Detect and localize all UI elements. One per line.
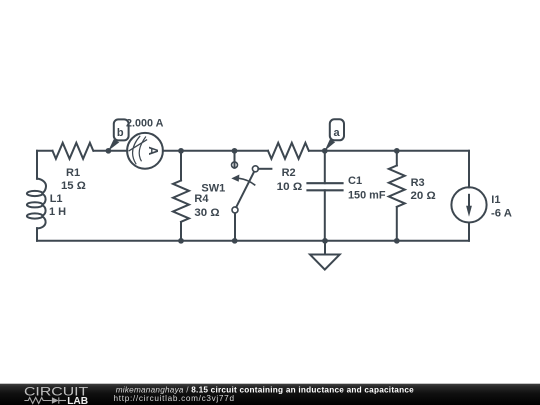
logo diode triangle bbox=[52, 397, 59, 404]
svg-text:R3: R3 bbox=[411, 177, 425, 189]
svg-text:-6 A: -6 A bbox=[491, 208, 512, 220]
svg-text:b: b bbox=[117, 127, 124, 139]
wire right branch upper bbox=[468, 151, 470, 188]
switch SW1 bottom stub bbox=[234, 213, 236, 241]
resistor R4 bbox=[173, 181, 189, 222]
logo schematic glyph: wire, resistor, diode bbox=[24, 397, 66, 403]
svg-text:150 mF: 150 mF bbox=[348, 189, 386, 201]
switch SW1 actuation arrowhead bbox=[231, 175, 239, 182]
inductor L1 loop 2 bbox=[27, 202, 43, 207]
node label a tail bbox=[325, 139, 336, 151]
ground stub bbox=[324, 241, 326, 255]
svg-text:R2: R2 bbox=[282, 167, 296, 179]
capacitor C1 top plate bbox=[308, 182, 343, 184]
svg-text:10 Ω: 10 Ω bbox=[277, 181, 303, 193]
ammeter needle bbox=[129, 140, 148, 152]
svg-text:1 H: 1 H bbox=[49, 206, 66, 218]
svg-text:LAB: LAB bbox=[67, 396, 88, 405]
wire R4 top lead bbox=[180, 151, 182, 181]
ammeter scale arc 1 bbox=[133, 136, 141, 165]
svg-text:30 Ω: 30 Ω bbox=[194, 207, 219, 219]
wire bottom bbox=[37, 240, 469, 242]
wire R1 to ammeter bbox=[94, 150, 127, 152]
current source I1 arrowhead bbox=[466, 206, 472, 217]
junction dot SW1 top bbox=[232, 148, 238, 154]
wire R4 bottom lead bbox=[180, 222, 182, 240]
junction dot R4 bottom bbox=[178, 238, 184, 244]
svg-text:C1: C1 bbox=[348, 175, 362, 187]
wire R2 to top-right corner bbox=[309, 150, 469, 152]
capacitor C1 top lead bbox=[324, 151, 326, 183]
switch SW1 arm bbox=[236, 172, 254, 208]
ammeter scale arc 2 bbox=[139, 137, 146, 162]
junction dot SW1 bottom bbox=[232, 238, 238, 244]
current source I1 circle bbox=[451, 187, 486, 222]
capacitor C1 bottom plate bbox=[308, 189, 343, 191]
resistor R1 bbox=[53, 143, 94, 159]
inductor L1 exit curve bbox=[37, 216, 46, 228]
wire left branch upper bbox=[36, 151, 38, 179]
node label b box bbox=[114, 119, 129, 140]
resistor R3 bbox=[389, 166, 405, 207]
svg-text:I1: I1 bbox=[491, 194, 500, 206]
svg-text:15 Ω: 15 Ω bbox=[61, 180, 86, 192]
current source I1 arrow shaft bbox=[468, 194, 470, 207]
svg-text:http://circuitlab.com/c3vj77d: http://circuitlab.com/c3vj77d bbox=[114, 394, 235, 403]
inductor L1 entry curve bbox=[37, 179, 46, 194]
footer bar bbox=[0, 384, 540, 405]
inductor L1 loop 1 bbox=[27, 191, 43, 196]
svg-text:a: a bbox=[334, 127, 341, 139]
capacitor C1 bottom lead bbox=[324, 190, 326, 241]
inductor L1 arc 1-2 bbox=[42, 194, 45, 205]
wire R3 top lead bbox=[396, 151, 398, 166]
inductor L1 arc 2-3 bbox=[42, 205, 45, 216]
wire top-left horizontal lead bbox=[37, 150, 53, 152]
svg-text:20 Ω: 20 Ω bbox=[411, 190, 436, 202]
svg-text:R4: R4 bbox=[194, 193, 209, 205]
ground symbol triangle bbox=[310, 255, 340, 270]
switch SW1 throw stub bbox=[258, 168, 271, 170]
switch SW1 top terminal circle bbox=[232, 162, 238, 168]
junction dot R3 top bbox=[394, 148, 400, 154]
svg-text:A: A bbox=[146, 146, 160, 155]
inductor L1 loop 3 bbox=[27, 213, 43, 218]
node label a box bbox=[330, 119, 344, 140]
ammeter AM1 circle bbox=[127, 133, 163, 169]
junction dot ground bbox=[322, 238, 328, 244]
wire right branch lower bbox=[468, 223, 470, 241]
junction dot node a bbox=[322, 148, 328, 154]
switch SW1 pivot terminal circle bbox=[232, 207, 238, 213]
switch SW1 actuation arrow arc bbox=[239, 178, 255, 185]
wire R3 bottom lead bbox=[396, 207, 398, 240]
svg-text:mikemananghaya / 8.15 circuit: mikemananghaya / 8.15 circuit containing… bbox=[116, 385, 414, 394]
junction dot node b bbox=[106, 148, 112, 154]
svg-text:R1: R1 bbox=[66, 167, 80, 179]
node label b tail bbox=[108, 139, 119, 150]
junction dot R3 bottom bbox=[394, 238, 400, 244]
switch SW1 top stub bbox=[234, 151, 236, 168]
svg-text:L1: L1 bbox=[50, 193, 63, 205]
resistor R2 bbox=[268, 143, 309, 159]
junction dot R4 top bbox=[178, 148, 184, 154]
wire left branch lower bbox=[36, 228, 38, 241]
svg-text:2.000 A: 2.000 A bbox=[126, 118, 163, 130]
switch SW1 throw terminal circle bbox=[252, 166, 258, 172]
wire ammeter to R2 bbox=[163, 150, 268, 152]
